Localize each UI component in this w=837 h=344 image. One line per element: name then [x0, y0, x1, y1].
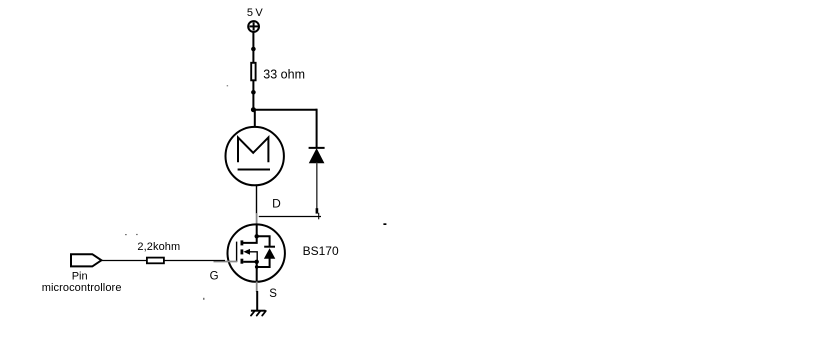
wire source to ground [256, 291, 258, 311]
svg-text:33 ohm: 33 ohm [263, 68, 305, 82]
pin connector symbol [71, 254, 101, 266]
svg-text:S: S [269, 288, 277, 300]
stray dot artifact 1 [125, 234, 126, 235]
transistor Q1 BS170 (gray drain lead) [256, 213, 258, 226]
channel bar top [240, 240, 243, 245]
wire motor bottom to drain node [256, 186, 258, 214]
drain line inside [256, 225, 258, 238]
source line inside [256, 262, 258, 282]
ground hatch 1 [251, 311, 255, 316]
channel bar bottom [240, 259, 243, 264]
ground symbol bar [251, 310, 266, 312]
diode D1 flyback (cathode bar) [309, 147, 325, 149]
wire pin to resistor [101, 260, 147, 262]
channel bar middle [240, 249, 243, 254]
wire drain node horizontal [259, 216, 321, 218]
body-diode cathode bar [264, 246, 275, 248]
svg-text:Pin: Pin [72, 271, 88, 283]
stray dot artifact 2 [136, 234, 137, 235]
motor M letter [238, 137, 268, 162]
source stub [243, 261, 257, 263]
gate bar [236, 242, 238, 262]
motor M1 (circle body) [226, 127, 284, 185]
wire diode-to-drain tick [318, 213, 320, 220]
wire kink into motor [254, 110, 256, 128]
drain stub to channel [243, 236, 257, 243]
svg-text:G: G [210, 271, 219, 283]
node junction dot [251, 47, 256, 52]
diode D1 flyback (anode triangle pointing up) [310, 149, 324, 163]
gray source lead [256, 282, 258, 293]
body arrow (points left) [243, 249, 250, 255]
svg-text:2,2kohm: 2,2kohm [137, 241, 180, 253]
ground hatch 2 [257, 311, 261, 316]
wire diode anode down [316, 163, 318, 209]
transistor body circle [228, 224, 285, 281]
power supply +5V terminal [248, 21, 259, 32]
resistor R 2,2kohm (horizontal) [147, 258, 164, 264]
wire diode anode blob [316, 208, 319, 213]
svg-text:BS170: BS170 [303, 244, 339, 258]
motor underline [238, 169, 270, 171]
wire diode branch (vertical down to cathode) [316, 109, 318, 149]
svg-text:microcontrollore: microcontrollore [42, 282, 122, 294]
ground hatch 3 [262, 311, 266, 316]
svg-text:D: D [272, 197, 281, 211]
wire supply to resistor [252, 32, 254, 63]
node junction dot (branch to diode) [251, 107, 256, 112]
stray speck artifact a [227, 85, 228, 86]
body-diode branch bottom [257, 259, 270, 268]
body-diode triangle (up) [264, 248, 275, 259]
wire resistor to gate [165, 260, 226, 262]
body line [250, 252, 258, 262]
wire branch to diode (horizontal) [253, 109, 316, 111]
drain junction dot [255, 234, 259, 238]
body-diode branch top [257, 236, 270, 247]
stray speck artifact b [203, 298, 204, 300]
source junction dot 2 [255, 265, 259, 269]
resistor R 33 ohm (vertical) [251, 63, 255, 81]
gray gate lead [214, 261, 238, 263]
source junction dot [255, 260, 259, 264]
wire resistor to motor [252, 81, 254, 113]
node junction dot [251, 90, 256, 95]
svg-text:5 V: 5 V [247, 7, 263, 19]
stray dash artifact [383, 223, 386, 225]
